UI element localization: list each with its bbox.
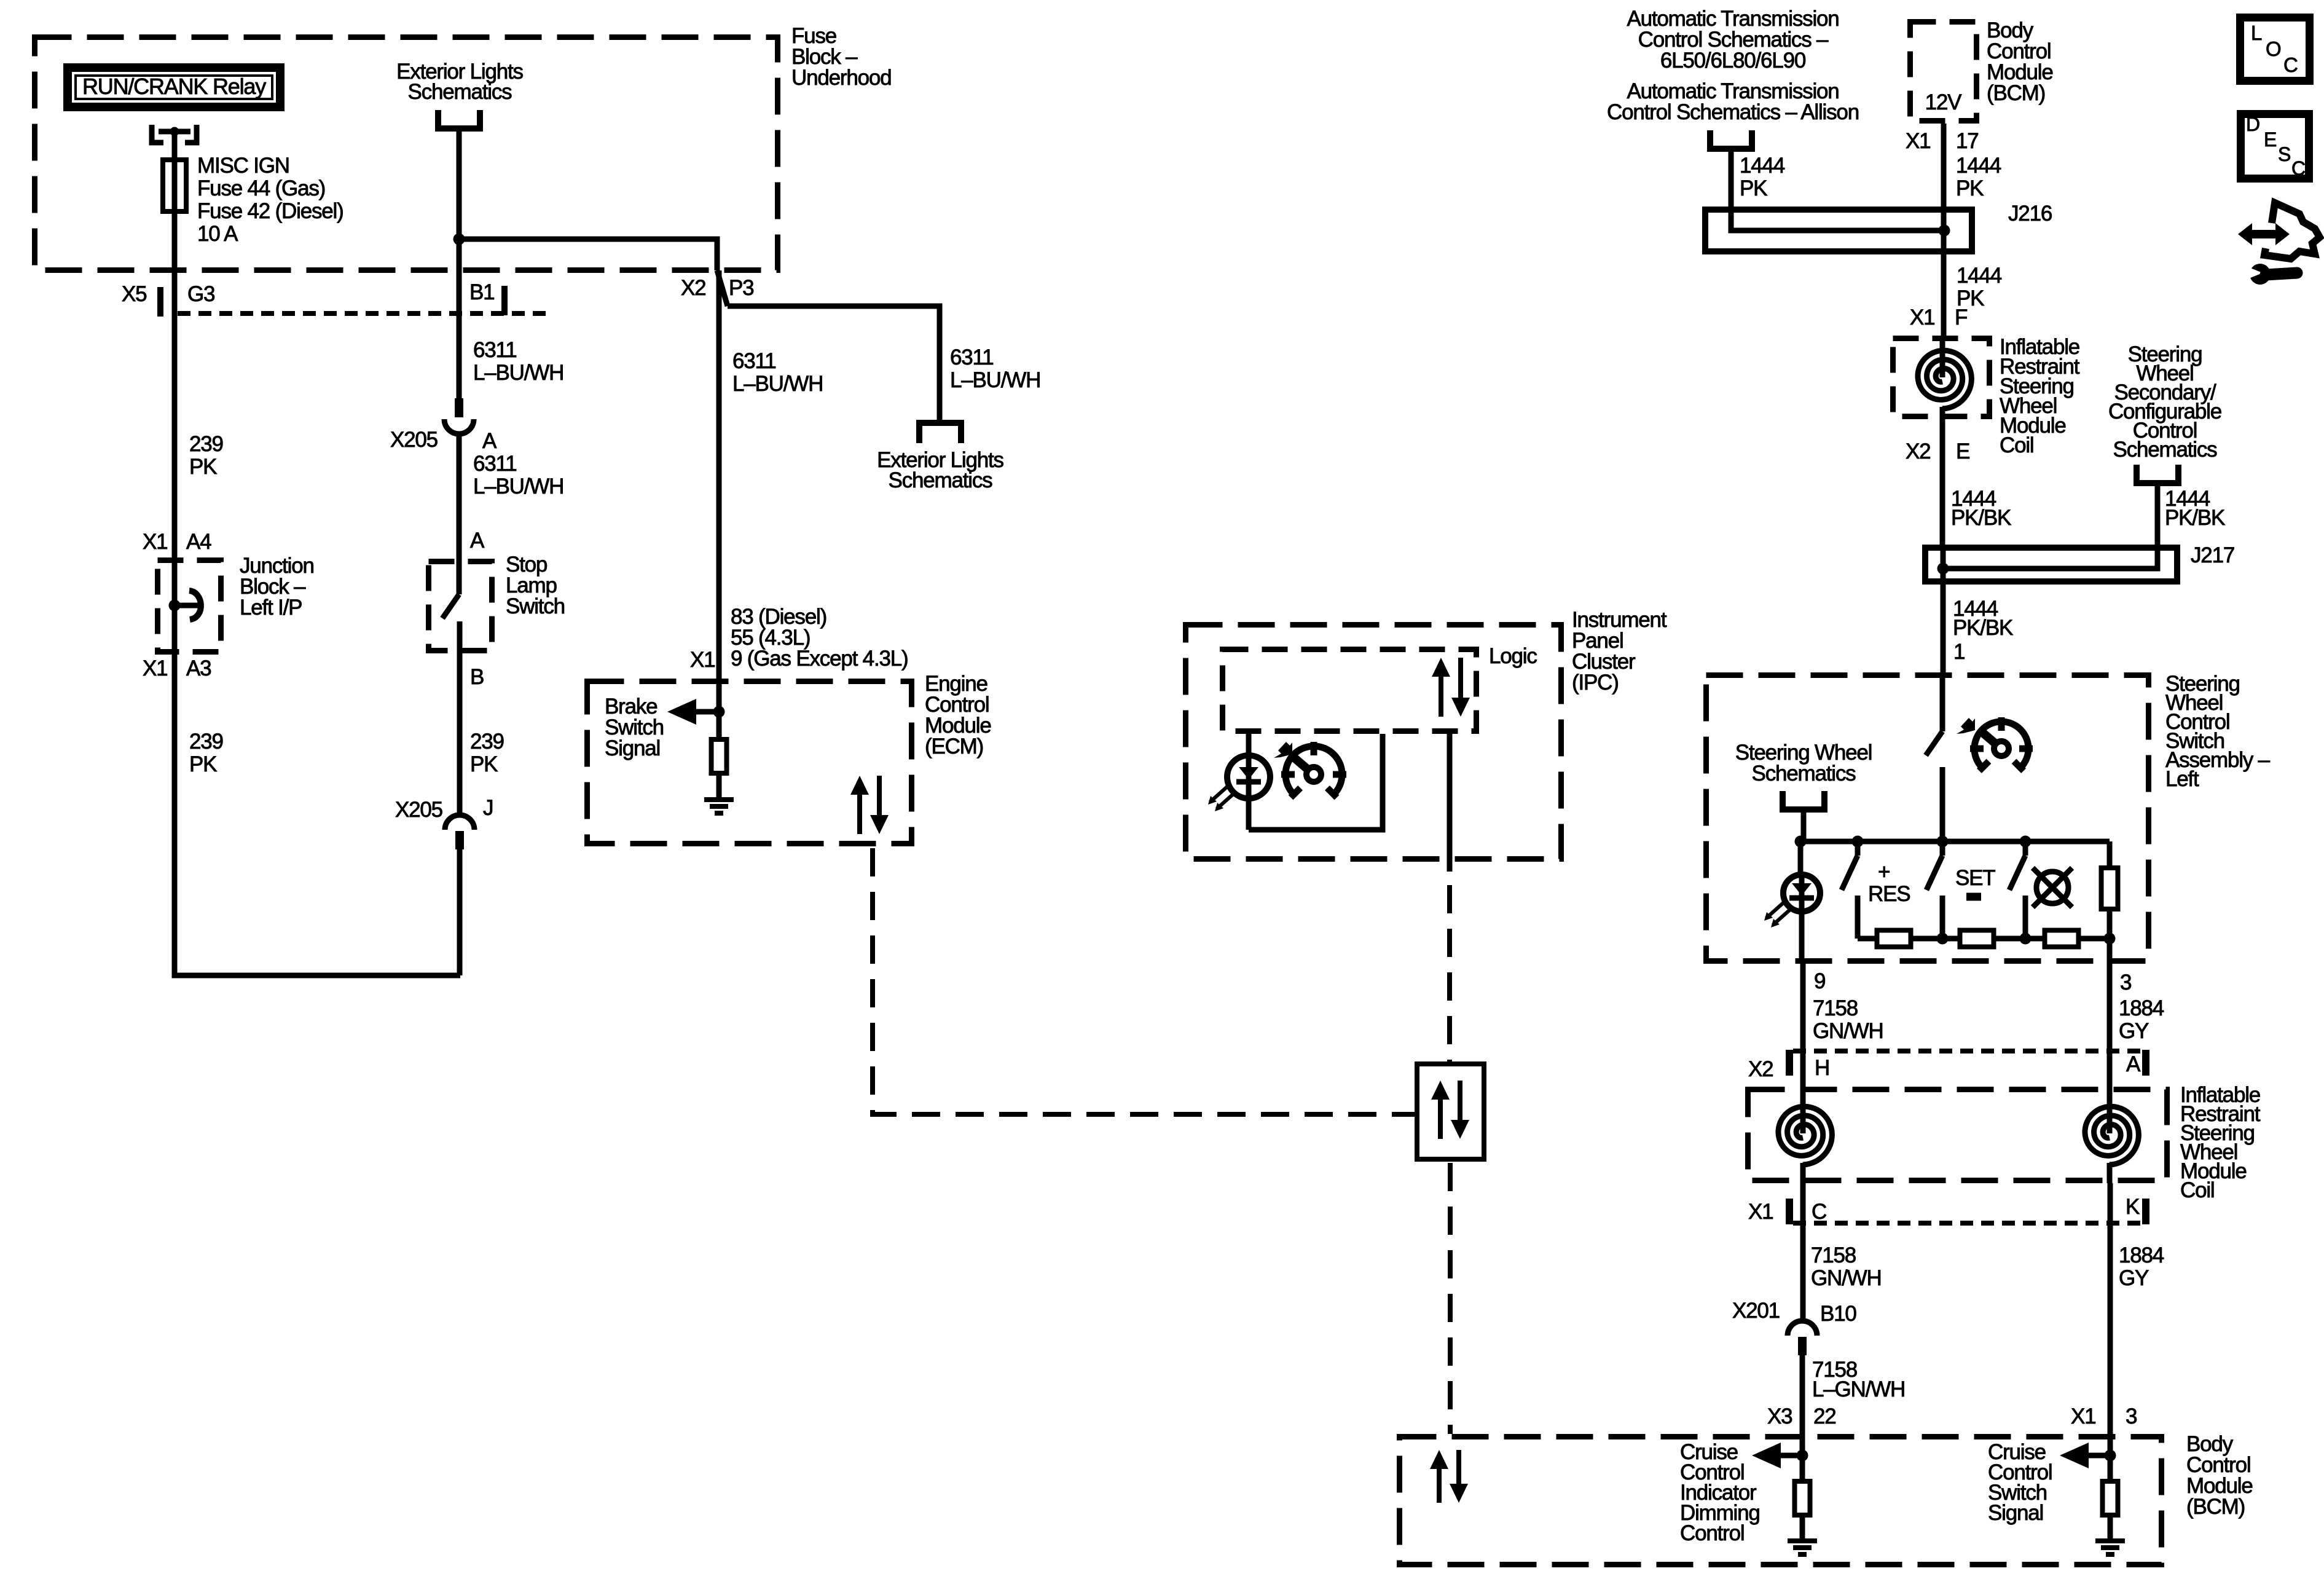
svg-text:X1: X1	[1910, 305, 1934, 329]
node cruise indicator	[1797, 1450, 1808, 1462]
wire junction to X2-P3	[459, 239, 717, 270]
svg-text:B1: B1	[469, 280, 494, 304]
wire 1444 PK left to J216	[1729, 150, 1734, 207]
off-page ref automatic transmission	[1607, 7, 1859, 149]
label J216	[2008, 202, 2052, 226]
svg-text:H: H	[1815, 1056, 1829, 1080]
svg-text:(IPC): (IPC)	[1572, 671, 1619, 695]
label 1444 PK/BK lower	[1953, 597, 2013, 640]
cruise indicator arrow	[1752, 1443, 1802, 1468]
switch SET	[1926, 841, 1942, 939]
icon diagnostic wrench	[2246, 264, 2297, 285]
label pin 17	[1956, 129, 1979, 153]
svg-text:PK/BK: PK/BK	[1953, 616, 2013, 640]
steering gauge icon	[1970, 717, 2033, 771]
svg-text:MISC IGN: MISC IGN	[197, 154, 289, 178]
svg-text:1884: 1884	[2119, 996, 2164, 1020]
svg-text:L–BU/WH: L–BU/WH	[732, 372, 823, 396]
svg-text:17: 17	[1956, 129, 1979, 153]
serial data dashed ECM	[873, 848, 1415, 1114]
wire to ground BCM left	[1800, 1518, 1805, 1541]
svg-text:6311: 6311	[732, 349, 775, 373]
switch bus bar	[1800, 839, 2110, 845]
brake switch signal arrow	[667, 699, 719, 725]
connector row X1 C K dotted	[1786, 1199, 2149, 1224]
connector X205 A inline	[444, 398, 474, 434]
node bus RES	[1852, 836, 1864, 848]
relay output terminal	[152, 125, 197, 143]
svg-text:Signal: Signal	[605, 736, 660, 760]
label X1 (ECM)	[690, 648, 715, 672]
label X2 (coil row)	[1748, 1057, 1773, 1081]
label ECM pins	[731, 605, 908, 671]
label pin 3 (BCM)	[2126, 1404, 2137, 1428]
svg-text:22: 22	[1813, 1404, 1836, 1428]
svg-text:P3: P3	[729, 276, 753, 300]
label pin E	[1956, 439, 1969, 463]
wire 6311 to stop lamp switch	[457, 434, 462, 594]
svg-text:J216: J216	[2008, 202, 2052, 226]
junction block label	[240, 554, 314, 620]
svg-text:Schematics: Schematics	[408, 80, 512, 104]
junction block bus bar	[169, 557, 201, 655]
cruise control indicator dimming control label	[1680, 1440, 1760, 1545]
svg-text:(BCM): (BCM)	[1987, 81, 2045, 105]
label 239 PK lower-left	[189, 730, 223, 776]
label X1 pin A4	[143, 530, 211, 554]
IPC serial output wire	[1447, 734, 1453, 872]
svg-text:B10: B10	[1820, 1302, 1856, 1326]
off-page ref steering wheel secondary	[2108, 342, 2221, 483]
connector X2/P3 jog	[717, 270, 728, 306]
svg-text:239: 239	[189, 432, 223, 456]
label X205 (J)	[395, 798, 442, 822]
inflatable restraint label lower	[2180, 1083, 2261, 1202]
cancel lamp symbol	[2033, 868, 2072, 907]
resistor R3	[2045, 931, 2079, 947]
svg-text:X205: X205	[390, 428, 438, 452]
label pin 9	[1814, 969, 1825, 993]
label pin 22	[1813, 1404, 1836, 1428]
label pin A switch	[470, 529, 485, 553]
svg-text:3: 3	[2120, 971, 2131, 994]
steering pointer icon	[1957, 718, 1975, 734]
label 7158 GN/WH upper	[1813, 996, 1883, 1043]
svg-text:+: +	[1878, 860, 1890, 884]
ground ECM	[704, 800, 734, 813]
svg-text:S: S	[2278, 143, 2290, 165]
ECM label	[925, 672, 991, 758]
svg-text:X1: X1	[143, 530, 167, 554]
label X1 (coil F)	[1910, 305, 1934, 329]
svg-text:X201: X201	[1732, 1299, 1780, 1323]
label plus RES	[1868, 860, 1910, 906]
cruise switch arrow	[2060, 1443, 2110, 1468]
svg-text:RUN/CRANK Relay: RUN/CRANK Relay	[82, 74, 266, 99]
off-page ref exterior lights schematics (top)	[396, 60, 523, 128]
label pin A (X205)	[482, 429, 497, 453]
IPC logic box	[1223, 650, 1477, 731]
wire 6311 to exterior lights right	[728, 306, 940, 420]
ECM serial data symbol	[850, 776, 889, 834]
svg-text:L–GN/WH: L–GN/WH	[1812, 1377, 1905, 1401]
svg-text:C: C	[2291, 157, 2305, 179]
svg-text:J: J	[483, 796, 493, 820]
node bus LED	[1795, 836, 1807, 848]
BCM top label	[1987, 18, 2053, 105]
label 239 PK upper	[189, 432, 223, 479]
svg-text:C: C	[2283, 53, 2298, 76]
stop lamp switch blade	[442, 594, 460, 676]
BCM label	[2186, 1432, 2253, 1519]
svg-text:GN/WH: GN/WH	[1811, 1266, 1882, 1290]
connector X5 tick	[157, 287, 163, 317]
label X1 pin A3	[143, 656, 211, 680]
icon DESC box	[2241, 113, 2309, 179]
svg-text:X1: X1	[1748, 1200, 1773, 1224]
svg-text:A: A	[482, 429, 497, 453]
label 1444 PK right	[1956, 154, 2001, 200]
label pin F	[1955, 305, 1967, 329]
svg-text:(BCM): (BCM)	[2186, 1495, 2245, 1519]
node bus SET	[1937, 836, 1949, 848]
svg-text:Coil: Coil	[2000, 433, 2034, 457]
svg-text:D: D	[2246, 113, 2259, 135]
svg-text:X1: X1	[1906, 129, 1930, 153]
svg-text:GY: GY	[2119, 1266, 2149, 1290]
label pin B10	[1820, 1302, 1856, 1326]
svg-text:X1: X1	[143, 656, 167, 680]
svg-text:Logic: Logic	[1489, 644, 1537, 668]
svg-text:Switch: Switch	[506, 594, 565, 618]
wire 1444 PKBK to J217	[1940, 419, 1945, 545]
svg-text:Schematics: Schematics	[2113, 438, 2218, 462]
svg-text:E: E	[2264, 128, 2276, 151]
label X3	[1767, 1404, 1792, 1428]
wire to ground BCM right	[2108, 1518, 2113, 1541]
svg-text:239: 239	[470, 730, 504, 754]
svg-text:PK: PK	[189, 455, 217, 479]
svg-text:Schematics: Schematics	[1752, 762, 1856, 786]
stop lamp switch label	[506, 553, 565, 618]
wire 239 PK lower-left	[175, 655, 460, 975]
fuse block - underhood box	[35, 37, 778, 270]
cruise control switch signal label	[1988, 1440, 2052, 1525]
svg-text:Underhood: Underhood	[791, 66, 891, 90]
svg-text:L–BU/WH: L–BU/WH	[473, 361, 563, 385]
svg-text:(ECM): (ECM)	[925, 734, 983, 758]
svg-text:X1: X1	[690, 648, 715, 672]
svg-text:X2: X2	[681, 276, 705, 300]
wire ref to bus	[1801, 813, 1807, 841]
IPC label	[1572, 608, 1667, 695]
BCM serial symbol	[1430, 1450, 1468, 1503]
wire 1884 out	[2107, 939, 2113, 1051]
label J217	[2191, 543, 2234, 567]
label 239 PK col2	[470, 730, 504, 776]
svg-text:C: C	[1812, 1200, 1826, 1224]
svg-text:X205: X205	[395, 798, 442, 822]
label 6311 L-BU/WH col2	[473, 338, 563, 385]
wire from X205 J to bottom corner	[457, 849, 463, 975]
svg-text:Schematics: Schematics	[889, 468, 993, 492]
label pin J (X205)	[483, 796, 493, 820]
label Logic	[1489, 644, 1537, 668]
svg-text:SET: SET	[1955, 866, 1995, 890]
wire 1444 PK below J216	[1941, 254, 1947, 336]
connector B1 tick	[501, 286, 508, 315]
relay RUN/CRANK	[68, 68, 280, 107]
serial data dashed to BCM	[1448, 1163, 1453, 1434]
svg-text:10 A: 10 A	[197, 222, 238, 246]
fuse MISC IGN 10A	[163, 157, 186, 214]
svg-text:1444: 1444	[1956, 154, 2001, 178]
node brake switch junction	[713, 706, 725, 718]
stop lamp switch box	[429, 562, 492, 651]
svg-text:PK/BK: PK/BK	[2165, 506, 2225, 530]
steering wheel control switch label	[2165, 672, 2271, 791]
svg-text:RES: RES	[1868, 882, 1910, 906]
label 1444 PK left	[1740, 154, 1785, 200]
label P3	[729, 276, 753, 300]
wire 6311 down to X205 A	[457, 239, 462, 398]
label X1 (BCM top)	[1906, 129, 1930, 153]
node ladder SET	[1937, 933, 1949, 945]
label X1 (coil row)	[1748, 1200, 1773, 1224]
label 6311 L-BU/WH right	[950, 345, 1040, 392]
svg-text:Control Schematics – Allison: Control Schematics – Allison	[1607, 100, 1859, 124]
svg-text:Left I/P: Left I/P	[240, 596, 302, 620]
serial data dashed IPC	[1447, 885, 1452, 1061]
svg-text:1: 1	[1953, 640, 1965, 664]
svg-text:7158: 7158	[1813, 996, 1858, 1020]
svg-text:O: O	[2266, 37, 2281, 60]
IPC box	[1186, 625, 1561, 859]
coil box upper	[1893, 339, 1990, 417]
svg-text:G3: G3	[187, 282, 214, 306]
wire cruise indicator input	[1800, 1355, 1805, 1479]
svg-text:L–BU/WH: L–BU/WH	[473, 474, 563, 498]
wire 1884 below coil	[2108, 1183, 2113, 1479]
svg-text:A: A	[470, 529, 485, 553]
label G3	[187, 282, 214, 306]
label X1 (BCM)	[2071, 1404, 2095, 1428]
label X2 (coil E)	[1906, 439, 1930, 463]
svg-text:F: F	[1955, 305, 1967, 329]
IPC pointer icon	[1274, 742, 1292, 758]
IPC indicator LED	[1208, 734, 1270, 830]
label X5	[122, 282, 146, 306]
ECM box	[587, 682, 912, 844]
svg-text:7158: 7158	[1811, 1243, 1856, 1267]
steering wheel control switch box	[1706, 675, 2149, 961]
svg-text:A: A	[2126, 1052, 2141, 1076]
resistor cruise indicator	[1795, 1481, 1810, 1515]
wire relay to fuse	[172, 132, 178, 159]
svg-text:L: L	[2251, 22, 2262, 44]
clockspring coil right	[2085, 1051, 2138, 1183]
off-page ref steering wheel schematics	[1735, 741, 1872, 809]
serial gateway symbol	[1431, 1081, 1469, 1139]
wire fuse to connector X5-G3	[172, 214, 178, 313]
label X2 (P3)	[681, 276, 705, 300]
label 1444 PK/BK right	[2165, 487, 2225, 530]
inflatable restraint label upper	[2000, 335, 2080, 457]
node ladder CANCEL	[2020, 933, 2032, 945]
splice J216	[1705, 207, 1972, 254]
wire BCM 12V to J216	[1941, 124, 1947, 207]
resistor cruise switch	[2103, 1481, 2118, 1515]
svg-text:X3: X3	[1767, 1404, 1792, 1428]
label SET minus	[1955, 866, 1995, 897]
label pin 3 (switch)	[2120, 971, 2131, 994]
svg-text:X2: X2	[1748, 1057, 1773, 1081]
svg-text:PK: PK	[1740, 176, 1767, 200]
svg-text:6311: 6311	[473, 452, 516, 476]
connector X5/G3 dotted line	[178, 311, 550, 316]
svg-text:A4: A4	[186, 530, 211, 554]
wire 6311 to ECM	[716, 270, 722, 712]
BCM box	[1400, 1437, 2162, 1565]
node bus CANCEL	[2020, 836, 2032, 848]
svg-text:J217: J217	[2191, 543, 2234, 567]
svg-text:3: 3	[2126, 1404, 2137, 1428]
svg-text:E: E	[1956, 439, 1969, 463]
label X205 (A)	[390, 428, 438, 452]
svg-text:Fuse 42 (Diesel): Fuse 42 (Diesel)	[197, 199, 343, 223]
wire 1444 PKBK right branch	[2155, 484, 2161, 545]
clockspring coil left	[1778, 1051, 1832, 1183]
resistor ladder line	[1858, 936, 2110, 942]
junction block - left I/P box	[158, 561, 221, 652]
wire 6311 from ref to junction	[457, 130, 462, 239]
svg-text:X2: X2	[1906, 439, 1930, 463]
label pin A (coil)	[2126, 1052, 2141, 1076]
svg-text:Left: Left	[2165, 767, 2199, 791]
ground BCM right	[2095, 1541, 2125, 1554]
wire to ECM resistor	[716, 712, 722, 737]
icon diagnostic outline	[2264, 203, 2320, 259]
IPC gauge icon	[1281, 742, 1346, 798]
svg-text:Control: Control	[1680, 1521, 1744, 1545]
connector X205 J inline	[445, 815, 474, 849]
svg-text:PK/BK: PK/BK	[1951, 506, 2011, 530]
svg-text:B: B	[470, 665, 484, 689]
fuse label	[197, 154, 343, 246]
resistor R1	[1877, 931, 1911, 947]
svg-text:K: K	[2126, 1195, 2140, 1219]
wire 7158 out	[1800, 961, 1806, 1051]
svg-text:X5: X5	[122, 282, 146, 306]
svg-text:6311: 6311	[473, 338, 516, 362]
off-page ref exterior lights schematics (right)	[877, 423, 1003, 492]
cruise on-off switch	[1926, 672, 1942, 841]
svg-text:9 (Gas Except 4.3L): 9 (Gas Except 4.3L)	[731, 647, 908, 671]
BCM 12V box	[1910, 22, 1977, 121]
node cruise switch signal	[2105, 1450, 2116, 1462]
wire 7158 below coil	[1800, 1183, 1806, 1321]
wire cruise switch input	[2108, 1423, 2113, 1479]
svg-text:GY: GY	[2119, 1019, 2149, 1043]
coil box lower	[1748, 1090, 2167, 1181]
label X201	[1732, 1299, 1780, 1323]
label pin 1	[1953, 640, 1965, 664]
IPC logic serial symbol	[1432, 658, 1470, 717]
svg-text:Fuse 44 (Gas): Fuse 44 (Gas)	[197, 176, 325, 200]
IPC indicator loop wire	[1249, 734, 1383, 830]
label 1884 GY lower	[2119, 1243, 2164, 1290]
resistor R2	[1960, 931, 1994, 947]
label 1444 PK/BK left	[1951, 487, 2011, 530]
svg-text:L–BU/WH: L–BU/WH	[950, 368, 1040, 392]
fuse block - underhood label	[791, 24, 891, 90]
resistor ECM pulldown	[712, 739, 727, 773]
svg-text:Coil: Coil	[2180, 1178, 2215, 1202]
svg-text:PK: PK	[470, 752, 498, 776]
svg-text:239: 239	[189, 730, 223, 754]
switch RES	[1842, 841, 1858, 939]
node junction 6311	[453, 234, 465, 245]
svg-text:1444: 1444	[1740, 154, 1785, 178]
brake switch signal label	[605, 695, 664, 760]
svg-text:GN/WH: GN/WH	[1813, 1019, 1883, 1043]
icon diagnostic arrow	[2238, 223, 2290, 245]
label pin C	[1812, 1200, 1826, 1224]
label pin K	[2126, 1195, 2140, 1219]
label B1	[469, 280, 494, 304]
svg-text:A3: A3	[186, 656, 211, 680]
splice J217	[1925, 545, 2177, 585]
svg-text:6L50/6L80/6L90: 6L50/6L80/6L90	[1660, 49, 1806, 73]
label 7158 GN/WH lower	[1811, 1243, 1882, 1290]
svg-text:1444: 1444	[1957, 264, 2002, 288]
svg-text:PK: PK	[1956, 176, 1984, 200]
label pin B switch	[470, 665, 484, 689]
svg-text:Signal: Signal	[1988, 1501, 2043, 1525]
resistor steering right	[2102, 841, 2118, 939]
label 6311 L-BU/WH col2b	[473, 452, 563, 498]
clockspring coil upper	[1918, 336, 1971, 419]
connector X201 B10 inline	[1788, 1321, 1817, 1355]
steering LED	[1764, 841, 1820, 961]
wire 239 PK to junction block	[172, 313, 178, 557]
connector row X2 H A dotted	[1786, 1050, 2149, 1076]
wire 239 PK below switch	[457, 676, 463, 815]
label 7158 L-GN/WH	[1812, 1358, 1905, 1401]
svg-text:6311: 6311	[950, 345, 993, 369]
ground BCM left	[1788, 1541, 1817, 1554]
label 1884 GY upper	[2119, 996, 2164, 1043]
svg-text:PK: PK	[189, 752, 217, 776]
svg-text:X1: X1	[2071, 1404, 2095, 1428]
svg-text:1884: 1884	[2119, 1243, 2164, 1267]
icon LOC box	[2240, 18, 2310, 81]
label 1444 PK below J216	[1957, 264, 2002, 310]
wire 1444 PKBK to steering wheel	[1941, 585, 1946, 672]
svg-text:12V: 12V	[1925, 90, 1963, 114]
wire resistor to ground	[716, 776, 722, 800]
serial data gateway box	[1417, 1064, 1484, 1159]
svg-text:9: 9	[1814, 969, 1825, 993]
node ladder right	[2104, 933, 2116, 945]
label pin H	[1815, 1056, 1829, 1080]
switch CANCEL	[2009, 841, 2025, 939]
label 6311 L-BU/WH mid	[732, 349, 823, 396]
